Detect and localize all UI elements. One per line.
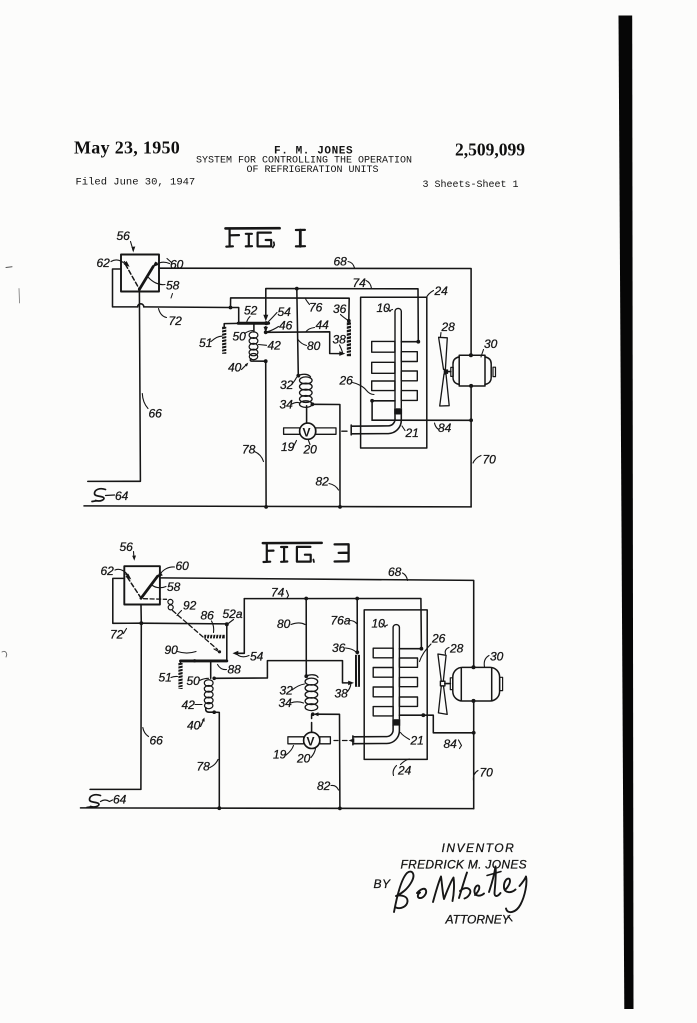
label 28 bbox=[441, 320, 456, 337]
svg-text:2,509,099: 2,509,099 bbox=[455, 140, 525, 160]
svg-text:64: 64 bbox=[113, 793, 127, 807]
label 82 fig3 bbox=[317, 779, 339, 793]
label 62 fig3 bbox=[101, 564, 128, 578]
wire 84 bbox=[372, 419, 471, 421]
pipe stub 19 left fig3 bbox=[288, 737, 304, 744]
junction dot coil32 top bbox=[296, 374, 300, 378]
junction dot coil42 top fig3 bbox=[212, 677, 216, 681]
evaporator fin L1 bbox=[372, 341, 395, 352]
junction dot wire74-evaporator fig3 bbox=[420, 647, 424, 651]
label 10 bbox=[377, 301, 393, 315]
wire 72 left loop from box bbox=[113, 269, 138, 307]
tube coupler band fig3 bbox=[392, 719, 400, 725]
junction dot coil32 bottom bbox=[311, 402, 315, 406]
label 76a bbox=[331, 614, 357, 628]
svg-text:72: 72 bbox=[169, 314, 183, 328]
svg-text:66: 66 bbox=[150, 734, 164, 748]
wire 74 terminal in evaporator fig3 bbox=[399, 648, 421, 650]
label 66 bbox=[142, 394, 162, 421]
junction dot 72-66 fig3 bbox=[139, 621, 143, 625]
relay coil 42 fig3 bbox=[204, 680, 213, 709]
thermostat sensing bulb 36-38 bbox=[347, 322, 352, 356]
label 36 bbox=[333, 302, 348, 320]
evaporator fin L2 fig3 bbox=[373, 668, 393, 678]
fan 28 upper blade bbox=[439, 337, 448, 369]
svg-text:Filed June 30, 1947: Filed June 30, 1947 bbox=[76, 177, 196, 189]
junction dot rail-82 bbox=[338, 505, 342, 509]
svg-text:10: 10 bbox=[372, 617, 386, 631]
svg-text:54: 54 bbox=[250, 650, 264, 664]
label 74 fig3 bbox=[271, 586, 289, 600]
svg-text:60: 60 bbox=[170, 258, 184, 272]
svg-text:50: 50 bbox=[233, 330, 247, 344]
svg-text:76a: 76a bbox=[331, 614, 351, 628]
label 80 bbox=[298, 339, 321, 353]
wire 70 below motor bbox=[470, 386, 472, 507]
junction dot motor bottom fig3 bbox=[472, 699, 476, 703]
svg-text:54: 54 bbox=[278, 305, 292, 319]
svg-text:28: 28 bbox=[441, 320, 456, 334]
label 50 fig3 bbox=[187, 674, 209, 688]
switch arm 58 bbox=[139, 267, 153, 290]
scan margin speck 2 bbox=[18, 289, 21, 304]
label 62 bbox=[97, 256, 125, 270]
svg-text:3 Sheets-Sheet 1: 3 Sheets-Sheet 1 bbox=[423, 179, 519, 191]
label 56 fig3 bbox=[120, 540, 137, 561]
evaporator fin L4 fig3 bbox=[373, 707, 393, 716]
label 38 bbox=[333, 333, 347, 353]
evaporator enclosure box 24 fig3 bbox=[364, 610, 427, 760]
attorney signature scrawl bbox=[394, 867, 526, 913]
svg-text:70: 70 bbox=[483, 453, 497, 467]
evaporator tube 10 fig3 bbox=[393, 625, 399, 719]
evaporator tap wire to 84 fig3 bbox=[399, 714, 423, 716]
label 58 bbox=[149, 278, 180, 293]
lead coil32 to valve fig3 bbox=[311, 715, 313, 733]
wire 72 left loop fig3 bbox=[113, 578, 142, 623]
tube 10 lower section and bend 21 bbox=[351, 415, 401, 435]
label 19 bbox=[281, 440, 297, 454]
label 34 fig3 bbox=[279, 696, 304, 710]
label 38 fig3 bbox=[335, 685, 351, 701]
svg-text:20: 20 bbox=[296, 752, 311, 766]
junction dot on armature bbox=[193, 659, 196, 662]
svg-text:70: 70 bbox=[480, 766, 494, 780]
junction dot 40 bbox=[264, 359, 268, 363]
relay contact bar 52 bbox=[238, 322, 268, 325]
svg-text:76: 76 bbox=[309, 301, 323, 315]
svg-text:21: 21 bbox=[405, 426, 419, 440]
svg-text:52: 52 bbox=[244, 304, 258, 318]
evaporator fin L2 bbox=[372, 362, 395, 373]
wire 74 upper run bbox=[266, 289, 419, 342]
coil 42 bottom lead bbox=[250, 359, 265, 361]
wire 68 top run bbox=[159, 268, 471, 355]
svg-text:58: 58 bbox=[167, 580, 181, 594]
solenoid coil 32 bbox=[298, 374, 312, 407]
evaporator fin R2 fig3 bbox=[399, 677, 417, 686]
svg-text:BY: BY bbox=[374, 877, 392, 891]
fixed contact 46 arrow and node bbox=[265, 327, 267, 329]
svg-text:60: 60 bbox=[176, 559, 190, 573]
relay coil 42 lead fig3 bbox=[210, 661, 212, 678]
label 42 bbox=[259, 339, 282, 353]
heater element 51 fig3 (hatched) bbox=[178, 661, 183, 689]
label 32 bbox=[280, 378, 297, 393]
junction dot rail-78 fig3 bbox=[217, 806, 221, 810]
junction dot 84-70 bbox=[469, 418, 473, 422]
svg-text:30: 30 bbox=[484, 337, 498, 351]
junction dot 74-76a fig3 bbox=[355, 597, 359, 601]
wire 82 fig3 bbox=[316, 714, 340, 808]
wire 44 to sensor bottom bbox=[266, 332, 342, 354]
svg-text:62: 62 bbox=[97, 256, 111, 270]
svg-text:74: 74 bbox=[353, 276, 367, 290]
label 72 bbox=[159, 309, 183, 329]
motor shaft stub left bbox=[451, 367, 453, 376]
junction dot sensor 36 fig3 bbox=[355, 650, 359, 654]
arrowhead wire82 into coil fig3 bbox=[314, 712, 319, 716]
label 21 bbox=[402, 426, 419, 440]
relay pivot post fig3 bbox=[226, 624, 228, 661]
svg-text:64: 64 bbox=[115, 489, 129, 503]
junction dot 74-80 fig3 bbox=[304, 597, 308, 601]
label 54 bbox=[269, 305, 292, 322]
label 70 bbox=[473, 453, 496, 467]
svg-text:62: 62 bbox=[101, 564, 115, 578]
svg-text:80: 80 bbox=[277, 617, 291, 631]
svg-text:68: 68 bbox=[334, 255, 348, 269]
bottom supply rail fig1 bbox=[84, 506, 471, 507]
wire 82 bbox=[312, 404, 340, 507]
wire 72 hop over wire 66 bbox=[138, 304, 144, 307]
label 60 bbox=[157, 258, 184, 272]
contact blob 54 bbox=[264, 321, 268, 325]
svg-text:36: 36 bbox=[332, 641, 346, 655]
svg-text:42: 42 bbox=[182, 698, 196, 712]
svg-text:88: 88 bbox=[228, 663, 242, 677]
heater 51 stub from bar bbox=[224, 323, 238, 327]
heater 86 on armature (hatched) bbox=[204, 635, 224, 639]
evaporator fin R1 fig3 bbox=[399, 658, 417, 667]
wire 66 vertical drop bbox=[88, 290, 141, 482]
svg-text:10: 10 bbox=[377, 301, 391, 315]
junction dot 74-80 bbox=[295, 287, 299, 291]
label 84 fig3 bbox=[444, 737, 462, 751]
label 21 fig3 bbox=[401, 733, 424, 748]
fan shaft fig3 bbox=[445, 683, 450, 685]
alignment dash pipe bbox=[342, 430, 347, 432]
label 44 bbox=[306, 318, 329, 332]
scan margin speck 1 bbox=[6, 266, 12, 269]
junction dot motor top fig3 bbox=[472, 665, 476, 669]
svg-text:90: 90 bbox=[165, 643, 179, 657]
junction dot 72 node bbox=[229, 306, 233, 310]
svg-text:66: 66 bbox=[149, 407, 163, 421]
heater element 51 (hatched) bbox=[222, 327, 227, 354]
expansion valve 20 circle bbox=[300, 423, 316, 439]
label 76 bbox=[306, 298, 323, 314]
label 92 bbox=[177, 599, 197, 616]
evaporator fin L3 fig3 bbox=[373, 687, 393, 697]
label 36 fig3 bbox=[332, 641, 356, 655]
fan shaft bbox=[448, 371, 451, 373]
svg-text:24: 24 bbox=[434, 284, 449, 298]
label 40 fig3 bbox=[187, 718, 205, 733]
label 84 bbox=[435, 421, 452, 435]
label 78 bbox=[242, 443, 264, 462]
evaporator fin L1 fig3 bbox=[373, 648, 393, 658]
svg-text:38: 38 bbox=[335, 687, 349, 701]
svg-text:FREDRICK M. JONES: FREDRICK M. JONES bbox=[401, 858, 527, 872]
switch arm 58 fig3 bbox=[141, 576, 158, 598]
fan 28 lower blade bbox=[440, 374, 450, 406]
label 20 fig3 bbox=[296, 749, 316, 766]
svg-text:56: 56 bbox=[117, 229, 131, 243]
svg-text:OF REFRIGERATION UNITS: OF REFRIGERATION UNITS bbox=[247, 165, 379, 176]
label 60 fig3 bbox=[160, 559, 190, 575]
label 34 bbox=[280, 398, 300, 412]
svg-text:V: V bbox=[303, 426, 311, 440]
evaporator fin R3 fig3 bbox=[399, 697, 417, 706]
svg-text:78: 78 bbox=[197, 760, 211, 774]
tube 10 bend 21 fig3 bbox=[353, 726, 400, 745]
label 52 bbox=[244, 304, 258, 323]
svg-text:38: 38 bbox=[333, 333, 347, 347]
FIG.1 title lettering bbox=[226, 228, 306, 247]
relay coil 42 bbox=[249, 332, 258, 360]
evaporator tap wire to 84 bbox=[372, 401, 395, 420]
svg-text:56: 56 bbox=[120, 540, 134, 554]
svg-text:V: V bbox=[307, 735, 315, 749]
junction dot evaporator tap bbox=[370, 399, 374, 403]
expansion valve 20 circle fig3 bbox=[304, 732, 320, 748]
svg-text:84: 84 bbox=[444, 737, 458, 751]
evaporator enclosure box 24 bbox=[361, 297, 427, 448]
label 66 fig3 bbox=[143, 728, 163, 748]
label 51 bbox=[199, 336, 222, 350]
pipe stub right of valve bbox=[316, 428, 337, 434]
label 72 fig3 bbox=[110, 628, 127, 642]
label 28 fig3 bbox=[445, 642, 463, 656]
wire 74 fig3 bbox=[244, 599, 421, 649]
svg-text:44: 44 bbox=[316, 318, 330, 332]
evaporator tube 10 bbox=[395, 308, 401, 407]
label 24 fig3 bbox=[393, 759, 412, 778]
arrowhead wire 44 bbox=[339, 351, 345, 356]
svg-text:51: 51 bbox=[199, 336, 212, 350]
svg-text:24: 24 bbox=[397, 764, 412, 778]
label 46 bbox=[268, 319, 293, 333]
wire 78 bbox=[265, 361, 267, 507]
contact arrowhead right fig3 bbox=[157, 572, 163, 578]
label 52a bbox=[223, 607, 243, 624]
wire 80 vertical bbox=[297, 289, 299, 376]
fan 28 lower blade fig3 bbox=[438, 686, 447, 715]
thermostat switch box 56 bbox=[121, 255, 159, 292]
label 74 bbox=[353, 276, 372, 290]
label 10 fig3 bbox=[372, 617, 388, 631]
label 42 fig3 bbox=[182, 698, 203, 712]
pipe stub 19 left bbox=[284, 428, 300, 434]
tiny tick below 58 leader bbox=[171, 294, 173, 299]
evaporator fin R3 bbox=[401, 391, 417, 401]
thermostat sensing bulb 36-38 fig3 bbox=[355, 655, 360, 687]
svg-text:ATTORNEY: ATTORNEY bbox=[445, 913, 511, 927]
contact arrowhead left bbox=[124, 261, 130, 267]
bottom supply rail fig3 bbox=[81, 807, 474, 810]
label 40 with arrow bbox=[228, 361, 248, 375]
svg-text:19: 19 bbox=[281, 440, 295, 454]
wire 74 terminal in evaporator bbox=[401, 341, 418, 343]
label 88 bbox=[218, 663, 242, 677]
label 82 bbox=[316, 475, 339, 491]
wire 80 fig3 bbox=[305, 599, 307, 677]
wire 72 to relay junction bbox=[144, 306, 231, 309]
junction dot coil32 bottom fig3 bbox=[311, 712, 315, 716]
svg-text:28: 28 bbox=[449, 642, 464, 656]
svg-text:58: 58 bbox=[166, 279, 180, 293]
wire 84 fig3 bbox=[423, 715, 473, 733]
fixed contact 62 (dashed blade) bbox=[126, 265, 140, 289]
motor stub right fig3 bbox=[500, 677, 503, 690]
svg-text:May 23, 1950: May 23, 1950 bbox=[74, 138, 180, 158]
junction dot rail-78 bbox=[264, 505, 268, 509]
contact arrow 54 fig3 bbox=[237, 599, 245, 654]
pipe stub right of valve fig3 bbox=[320, 737, 331, 744]
label 51 fig3 bbox=[159, 671, 178, 685]
svg-text:21: 21 bbox=[410, 734, 424, 748]
svg-text:92: 92 bbox=[183, 599, 197, 613]
label 56 bbox=[117, 229, 136, 253]
fan hub bbox=[444, 369, 448, 374]
wire 76a fig3 bbox=[356, 599, 358, 653]
svg-text:26: 26 bbox=[339, 374, 354, 388]
contact arrowhead left fig3 bbox=[125, 574, 131, 580]
svg-text:68: 68 bbox=[388, 565, 402, 579]
svg-text:40: 40 bbox=[228, 361, 242, 375]
attorney underline tick bbox=[508, 916, 512, 921]
scanner black edge bar bbox=[619, 16, 634, 1010]
label 90 bbox=[165, 643, 222, 657]
tube coupler band bbox=[394, 408, 402, 414]
label 30 bbox=[481, 337, 498, 357]
svg-text:52a: 52a bbox=[223, 607, 243, 621]
motor shaft stub left fig3 bbox=[450, 678, 453, 690]
fan motor 30 body fig3 bbox=[453, 667, 500, 701]
svg-text:36: 36 bbox=[333, 302, 347, 316]
evaporator fin L3 bbox=[372, 381, 395, 391]
svg-text:19: 19 bbox=[273, 748, 287, 762]
svg-text:42: 42 bbox=[268, 339, 282, 353]
terminal S-64 script fig3 bbox=[87, 793, 127, 808]
wire from 72 node to contact bar bbox=[231, 308, 239, 323]
svg-text:50: 50 bbox=[187, 674, 201, 688]
evaporator fin R2 bbox=[401, 371, 417, 381]
alignment dash-dot pipe fig3 bbox=[334, 740, 347, 742]
label 68 fig3 bbox=[388, 565, 408, 580]
label 78 fig3 bbox=[197, 760, 219, 774]
relay coil 42 lead from bar bbox=[253, 325, 255, 332]
svg-text:82: 82 bbox=[317, 779, 331, 793]
mechanical link diagonal dashed 92 bbox=[173, 611, 218, 650]
svg-text:80: 80 bbox=[307, 339, 321, 353]
label 70 fig3 bbox=[473, 766, 493, 781]
label 30 fig3 bbox=[484, 650, 503, 668]
fan hub fig3 bbox=[440, 681, 445, 686]
junction dot wire74-evaporator bbox=[416, 340, 420, 344]
junction dot motor bottom bbox=[469, 384, 473, 388]
contact arrowhead right bbox=[152, 262, 158, 268]
terminal S-64 script label bbox=[92, 489, 129, 503]
svg-text:26: 26 bbox=[431, 632, 446, 646]
junction dot rail-82 fig3 bbox=[338, 807, 342, 811]
linkage rollers 92 bbox=[168, 599, 173, 604]
mechanical link dashes from arm pivot bbox=[144, 598, 167, 601]
svg-text:30: 30 bbox=[490, 650, 504, 664]
motor stub right bbox=[493, 367, 496, 376]
svg-text:40: 40 bbox=[187, 719, 201, 733]
wire 78 fig3 bbox=[214, 712, 219, 808]
label 20 bbox=[303, 441, 318, 457]
arrow into contact 54 bbox=[263, 315, 268, 322]
FIG.3 title lettering bbox=[263, 543, 349, 562]
lead coil32 to valve bbox=[306, 406, 308, 423]
label 80 fig3 bbox=[277, 617, 305, 631]
arrowhead pipe into valve fig3 bbox=[349, 738, 355, 743]
svg-text:82: 82 bbox=[316, 475, 330, 489]
svg-text:86: 86 bbox=[201, 609, 215, 623]
arrowhead into sensor fig3 bbox=[348, 681, 354, 686]
wire 68 fig3 bbox=[160, 578, 474, 667]
label 19 fig3 bbox=[273, 746, 294, 762]
label 26 bbox=[339, 374, 375, 395]
svg-text:51: 51 bbox=[159, 671, 172, 685]
junction dot 40 fig3 bbox=[212, 710, 216, 714]
coil 42 bottom lead fig3 bbox=[206, 708, 214, 712]
label 32 fig3 bbox=[280, 684, 305, 698]
junction dot relay top fig3 bbox=[225, 622, 229, 626]
wire 70 below motor fig3 bbox=[473, 701, 475, 809]
svg-text:INVENTOR: INVENTOR bbox=[442, 841, 516, 855]
svg-text:74: 74 bbox=[271, 586, 285, 600]
svg-text:72: 72 bbox=[110, 628, 124, 642]
evaporator fin R1 bbox=[401, 352, 417, 362]
svg-text:46: 46 bbox=[279, 319, 293, 333]
armature bar 88 fig3 bbox=[181, 659, 227, 662]
label 58 fig3 bbox=[153, 580, 181, 594]
junction dot motor top bbox=[469, 353, 473, 357]
svg-text:78: 78 bbox=[242, 443, 256, 457]
label 86 bbox=[201, 609, 215, 633]
fixed contact 62 dashed blade fig3 bbox=[128, 578, 141, 598]
label 50 bbox=[233, 330, 253, 344]
svg-text:84: 84 bbox=[438, 421, 452, 435]
label 24 bbox=[427, 284, 449, 298]
wire 44 step to sensor fig3 bbox=[214, 661, 350, 683]
label 54 fig3 bbox=[239, 650, 264, 664]
wire 76 upper loop to sensor bbox=[231, 298, 350, 321]
junction dot 84-70 fig3 bbox=[472, 731, 476, 735]
thermostat switch box 56 fig3 bbox=[124, 566, 160, 604]
label 68 bbox=[334, 255, 355, 269]
scan margin speck 3 bbox=[2, 651, 7, 657]
label 26 fig3 bbox=[420, 632, 446, 662]
wire 66 fig3 bbox=[90, 605, 141, 790]
junction dot sensor 36 bbox=[347, 319, 351, 323]
wire 72 to relay top fig3 bbox=[141, 622, 227, 625]
solenoid coil 32 fig3 bbox=[304, 674, 318, 710]
